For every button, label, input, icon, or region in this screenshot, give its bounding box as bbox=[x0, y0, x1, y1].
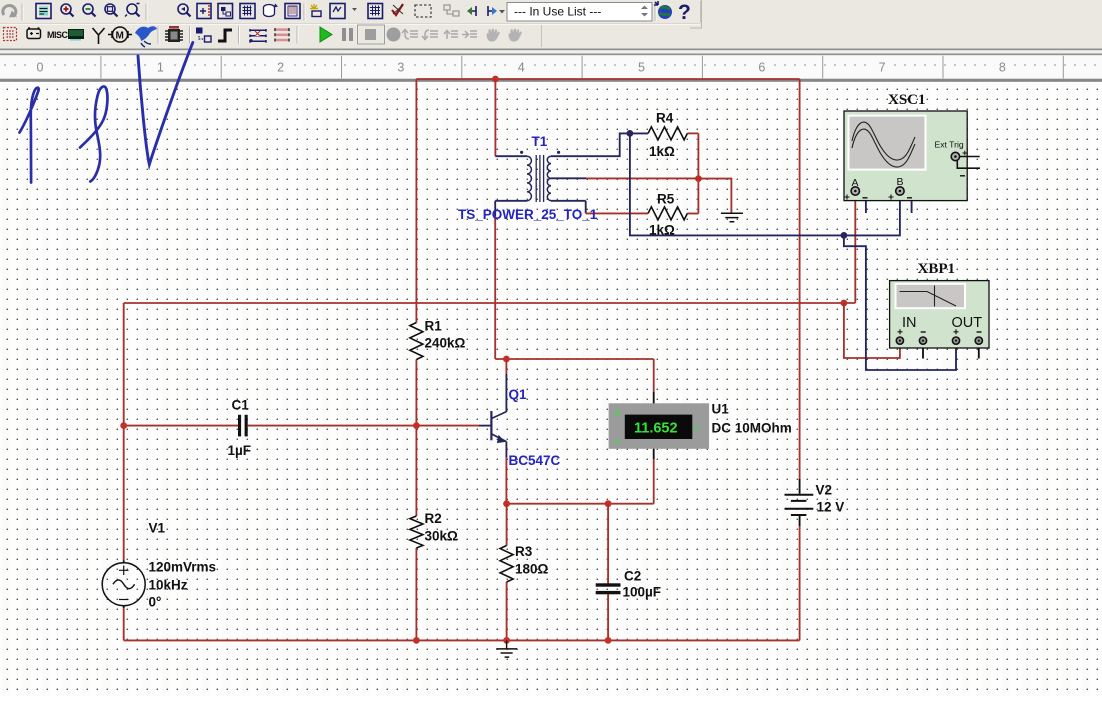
transformer T1 bbox=[458, 134, 598, 222]
svg-text:V2: V2 bbox=[816, 483, 833, 498]
toolbar: region select icon bbox=[415, 5, 431, 17]
wire collector stub bbox=[505, 359, 507, 412]
svg-text:V1: V1 bbox=[149, 521, 166, 536]
svg-text:R3: R3 bbox=[515, 544, 533, 559]
toolbar: zoom area bbox=[105, 4, 118, 17]
node C2 top tap bbox=[605, 500, 612, 507]
battery V2 bbox=[785, 479, 845, 526]
wire ground bottom rail bbox=[124, 639, 800, 641]
svg-text:R5: R5 bbox=[657, 192, 675, 207]
wire T1 primary top feed bbox=[495, 79, 527, 156]
wire R3 branch bbox=[506, 504, 508, 641]
wire bode IN/OUT minus stubs bbox=[923, 348, 979, 359]
svg-text:100µF: 100µF bbox=[623, 585, 662, 600]
wire T1 primary bottom return bbox=[495, 201, 527, 359]
pen scribble 2 bbox=[80, 86, 107, 181]
svg-text:T1: T1 bbox=[532, 134, 548, 149]
toolbar2: pause-hand icons bbox=[487, 29, 522, 42]
wire scope channel A vertical bbox=[854, 196, 856, 303]
toolbar row1 right edge bbox=[700, 1, 702, 23]
pen scribble 1 bbox=[20, 88, 39, 183]
toolbar2: pause button bbox=[342, 28, 353, 41]
svg-text:1µF: 1µF bbox=[228, 443, 252, 458]
wire to secondary ground bbox=[698, 179, 731, 213]
svg-text:OUT: OUT bbox=[952, 315, 983, 331]
toolbar: dropdown arrow bbox=[499, 10, 505, 14]
wire C1 to base bbox=[124, 425, 491, 427]
toolbar2 separator bbox=[297, 26, 298, 44]
toolbar2: halt circle button bbox=[387, 28, 401, 42]
toolbar2: chip icon bbox=[165, 26, 183, 42]
wire T1 secondary top bbox=[551, 133, 648, 156]
wire R4 right lead bbox=[687, 133, 698, 213]
toolbar: hierarchy box icon bbox=[218, 4, 233, 19]
wire collector rail bbox=[495, 358, 654, 360]
toolbar: zoom fit bbox=[125, 4, 140, 17]
toolbar2: antenna icon bbox=[93, 28, 105, 44]
toolbar2: breakpoint list icon navy bbox=[249, 29, 266, 43]
node VCC/T1 primary junction bbox=[492, 76, 499, 83]
toolbar: properties icon bbox=[197, 4, 211, 19]
svg-text:XSC1: XSC1 bbox=[888, 92, 926, 108]
resistor R1 bbox=[410, 319, 466, 360]
svg-text:240kΩ: 240kΩ bbox=[425, 336, 466, 351]
svg-text:1kΩ: 1kΩ bbox=[649, 223, 675, 238]
toolbar separator bbox=[304, 4, 305, 21]
toolbar: web globe icon bbox=[654, 1, 672, 19]
svg-text:R2: R2 bbox=[425, 511, 442, 526]
svg-text:B: B bbox=[897, 176, 904, 188]
svg-text:11.652: 11.652 bbox=[634, 421, 678, 437]
wire left VCC vertical (R1/R2 branch) bbox=[415, 79, 417, 640]
svg-text:2: 2 bbox=[277, 61, 284, 75]
svg-text:R1: R1 bbox=[425, 319, 443, 334]
toolbar2: diode box icon bbox=[4, 28, 17, 41]
transistor Q1 bbox=[490, 387, 560, 468]
node secondary top junction bbox=[627, 130, 634, 137]
toolbar2: stop button frame bbox=[358, 25, 385, 44]
toolbar: postprocessor icon bbox=[368, 4, 383, 19]
node base/C1/R1/R2 bbox=[120, 422, 420, 429]
toolbar: zoom out bbox=[83, 4, 96, 17]
toolbar2: breakpoint list icon red bbox=[275, 28, 289, 41]
svg-text:DC 10MOhm: DC 10MOhm bbox=[712, 421, 792, 436]
wire R4-R5 right vertical bbox=[697, 133, 699, 213]
scope ext-trig pins bbox=[957, 157, 980, 169]
svg-text:C1: C1 bbox=[232, 398, 250, 413]
node emitter/R3 bbox=[503, 500, 510, 507]
svg-text:Ext Trig: Ext Trig bbox=[935, 140, 964, 150]
toolbar2: step icons group bbox=[402, 30, 477, 40]
toolbar: sheet icon bbox=[36, 4, 51, 19]
toolbar2: NI bird icon bbox=[135, 26, 157, 47]
toolbar: new-part star icon bbox=[310, 4, 321, 17]
toolbar2: run button bbox=[320, 27, 332, 42]
svg-text:XBP1: XBP1 bbox=[918, 261, 956, 277]
toolbar2: subcircuit icon bbox=[196, 28, 211, 43]
toolbar: redo arrow bbox=[3, 6, 17, 18]
capacitor C1 bbox=[228, 398, 252, 459]
svg-text:?: ? bbox=[678, 1, 691, 24]
resistor R2 bbox=[410, 511, 458, 548]
node secondary ground tap bbox=[695, 175, 702, 182]
resistor R5 bbox=[648, 192, 687, 238]
svg-text:BC547C: BC547C bbox=[509, 453, 561, 468]
wire input left vertical (V1 branch) bbox=[123, 303, 125, 640]
resistor R4 bbox=[648, 111, 687, 160]
toolbar: grid icon bbox=[240, 4, 255, 19]
wire scope A minus stub bbox=[858, 192, 866, 213]
toolbar: back annotate icon bbox=[467, 6, 476, 16]
ruler bottom bar bbox=[0, 79, 1102, 82]
wire bode OUT connection bbox=[844, 235, 956, 370]
toolbar bottom edge bbox=[0, 49, 1102, 56]
ground (bottom rail) bbox=[496, 640, 517, 657]
svg-text:0: 0 bbox=[37, 61, 44, 75]
wire T1 center tap bbox=[551, 177, 698, 179]
svg-text:8: 8 bbox=[999, 61, 1006, 75]
svg-text:7: 7 bbox=[879, 61, 886, 75]
wire emitter rail bbox=[507, 503, 654, 505]
svg-text:R4: R4 bbox=[656, 111, 674, 126]
toolbar2 separator bbox=[239, 26, 240, 44]
toolbar: help icon bbox=[678, 1, 691, 24]
wire C2 branch bbox=[607, 504, 609, 641]
wire bode plotter IN connection bbox=[844, 303, 900, 358]
node collector junction bbox=[503, 356, 510, 363]
capacitor C2 bbox=[596, 569, 661, 600]
svg-text:--- In Use List ---: --- In Use List --- bbox=[514, 5, 601, 19]
toolbar: database icon bbox=[264, 4, 279, 17]
svg-text:M: M bbox=[116, 31, 124, 42]
svg-text:MISC: MISC bbox=[47, 30, 69, 40]
toolbar2 separator bbox=[158, 26, 159, 44]
oscilloscope XSC1 bbox=[844, 92, 980, 201]
toolbar: erc check icon bbox=[392, 4, 403, 15]
toolbar2: card icon bbox=[68, 29, 84, 41]
V1 labels bbox=[149, 521, 217, 610]
svg-text:30kΩ: 30kΩ bbox=[425, 529, 459, 544]
multimeter U1 bbox=[609, 402, 792, 449]
wire multimeter vertical bbox=[653, 359, 655, 504]
toolbar2 separator bbox=[190, 26, 191, 44]
svg-text:IN: IN bbox=[902, 315, 917, 331]
svg-text:10kHz: 10kHz bbox=[149, 578, 188, 593]
bode plotter XBP1 bbox=[890, 261, 989, 348]
toolbar2: source icon bbox=[27, 27, 41, 38]
toolbar: pattern box icon bbox=[285, 4, 300, 19]
svg-text:3: 3 bbox=[397, 61, 404, 75]
svg-text:TS_POWER_25_TO_1: TS_POWER_25_TO_1 bbox=[458, 207, 598, 222]
svg-text:4: 4 bbox=[518, 61, 525, 75]
ground (transformer secondary) bbox=[721, 213, 743, 222]
svg-text:1: 1 bbox=[157, 61, 164, 75]
svg-text:1kΩ: 1kΩ bbox=[649, 144, 675, 159]
wire scope channel B net bbox=[630, 133, 900, 235]
toolbar: In Use List combobox bbox=[507, 3, 652, 22]
node bottom rail junctions bbox=[413, 637, 611, 644]
pen scribble V bbox=[138, 43, 193, 165]
wire input signal horizontal bbox=[124, 302, 856, 304]
svg-text:5: 5 bbox=[638, 61, 645, 75]
svg-text:v: v bbox=[695, 423, 700, 434]
wire emitter stub bbox=[505, 442, 507, 504]
toolbar: hierarchy grey icon bbox=[444, 5, 459, 16]
wire T1 secondary bottom to R5 bbox=[551, 201, 648, 214]
svg-text:C2: C2 bbox=[624, 569, 641, 584]
toolbar separator bbox=[22, 4, 23, 21]
toolbar: graph icon bbox=[330, 4, 357, 19]
svg-text:180Ω: 180Ω bbox=[515, 562, 549, 577]
toolbar2: step icon bbox=[218, 30, 232, 41]
toolbar2: misc icon bbox=[47, 30, 69, 40]
node bode IN tap bbox=[841, 300, 848, 307]
wire V2 branch vertical bbox=[799, 79, 801, 640]
toolbar: find magnifier bbox=[178, 4, 191, 17]
svg-text:U1: U1 bbox=[712, 402, 730, 417]
node scope-B / bode-OUT tee bbox=[841, 232, 848, 239]
toolbar2: motor icon bbox=[108, 27, 132, 42]
svg-text:6: 6 bbox=[758, 61, 765, 75]
wire VCC top rail bbox=[416, 78, 799, 80]
resistor R3 bbox=[500, 544, 548, 582]
AC source V1 bbox=[102, 561, 145, 609]
svg-text:A: A bbox=[852, 177, 859, 189]
ruler strip bbox=[0, 55, 1102, 78]
toolbar2 right edge bbox=[541, 25, 543, 47]
svg-text:12 V: 12 V bbox=[817, 500, 845, 515]
svg-text:Q1: Q1 bbox=[509, 387, 528, 402]
svg-text:120mVrms: 120mVrms bbox=[149, 560, 217, 575]
toolbar separator bbox=[655, 3, 656, 22]
toolbar background bbox=[0, 0, 1102, 49]
toolbar: zoom in bbox=[61, 4, 74, 17]
svg-text:0°: 0° bbox=[149, 595, 162, 610]
toolbar separator bbox=[146, 4, 147, 21]
wire scope B minus stub bbox=[902, 192, 912, 213]
toolbar: forward annotate icon bbox=[488, 6, 497, 16]
